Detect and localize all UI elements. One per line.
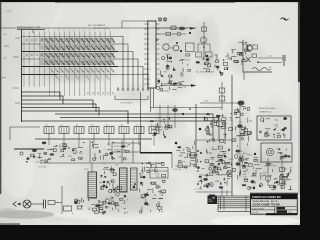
- wire left branch: [10, 127, 40, 140]
- stage mid right lower: [205, 146, 234, 170]
- transistor Q1: [163, 44, 169, 50]
- box divider: [186, 43, 195, 52]
- svg-text:T3: T3: [76, 125, 78, 127]
- dark component blob: [179, 27, 185, 31]
- wire amp top rail: [40, 162, 163, 164]
- svg-text:4: 4: [84, 30, 85, 32]
- dark blob top: [172, 108, 178, 112]
- handwritten squiggle: [252, 68, 271, 71]
- dark wire segment left: [14, 148, 44, 150]
- svg-text:6: 6: [48, 30, 49, 32]
- speaker icon: [266, 148, 273, 155]
- capacitor C40: [283, 55, 285, 66]
- wire secondary: [156, 32, 186, 36]
- wire amp verticals: [90, 140, 133, 163]
- wire long vertical x232: [231, 75, 233, 196]
- electrolytic cap dark dots: [103, 32, 261, 196]
- matrix row output staircase: [110, 37, 148, 88]
- svg-text:2: 2: [74, 30, 75, 32]
- svg-text:1: 1: [68, 30, 69, 32]
- svg-text:10: 10: [149, 69, 151, 71]
- scan speckles: [4, 4, 296, 212]
- wire label underline: [17, 29, 45, 31]
- wire y140 right: [196, 139, 232, 141]
- svg-text:c-4(): c-4(): [6, 9, 11, 13]
- wire long vertical x196: [195, 104, 197, 168]
- transducer LS1: [13, 200, 31, 208]
- svg-text:3: 3: [33, 30, 34, 32]
- edge labels: [268, 56, 272, 69]
- capacitor C21: [44, 200, 46, 209]
- transistor Q2: [201, 37, 207, 43]
- svg-text:8: 8: [149, 59, 150, 61]
- terminal circle: [20, 152, 23, 155]
- note box A: [112, 143, 140, 152]
- dark cap blob right column 2: [236, 162, 241, 165]
- output stage A: [197, 159, 232, 189]
- power parts inside: [252, 45, 259, 63]
- wire stubs below rail: [49, 139, 154, 147]
- power input parts: [229, 52, 243, 68]
- svg-text:AMERICAN CHIMES INC: AMERICAN CHIMES INC: [252, 195, 282, 199]
- svg-text:5: 5: [89, 30, 90, 32]
- preamp stage B: [176, 141, 197, 169]
- wire vertical amp input: [61, 186, 63, 214]
- svg-text:T4: T4: [91, 125, 93, 127]
- svg-text:DOOR CHIME 770-2W: DOOR CHIME 770-2W: [253, 203, 281, 207]
- svg-text:3: 3: [79, 30, 80, 32]
- svg-text:4: 4: [38, 30, 39, 32]
- left mid parts: [26, 149, 47, 162]
- svg-text:NS: NS: [208, 199, 212, 201]
- IC U1 pin stubs and numbers: [144, 24, 160, 84]
- wire to R45: [55, 202, 62, 204]
- title block header bar: [251, 194, 298, 199]
- amp lower parts: [72, 195, 128, 214]
- svg-text:KEY SW MATRIX: KEY SW MATRIX: [88, 24, 106, 27]
- connector small ticks: [88, 92, 113, 95]
- wire bottom rail: [196, 191, 232, 193]
- svg-text:T6: T6: [121, 125, 123, 127]
- amp discrete parts B: [139, 162, 165, 213]
- chart box upper: [257, 116, 291, 140]
- rail under trimmers: [35, 138, 152, 140]
- approval stamp: [208, 195, 218, 205]
- transformer T2: [120, 168, 128, 192]
- wire y107: [150, 107, 222, 109]
- matrix column wires: [24, 32, 110, 97]
- title block rule: [251, 206, 298, 208]
- wire from transducer: [31, 203, 43, 205]
- bus wire long C staircase: [60, 118, 219, 142]
- note box B: [150, 168, 168, 179]
- cap chain B: [265, 158, 272, 186]
- vertical wires quad: [160, 105, 175, 128]
- svg-text:9: 9: [149, 64, 150, 66]
- preamp stage A: [150, 117, 172, 135]
- diode matrix D1-D72: [25, 38, 115, 66]
- svg-text:12: 12: [149, 79, 151, 81]
- wire long vertical x140: [140, 92, 142, 152]
- resistor R45: [64, 206, 72, 211]
- wire U1 tail verticals: [151, 88, 154, 112]
- title block haze: [239, 190, 307, 218]
- wire corner drop: [121, 21, 123, 28]
- trimmer resistor row VR1-VR8: [44, 125, 159, 139]
- svg-text:+15v: +15v: [268, 56, 272, 58]
- bus wire long D staircase: [22, 121, 225, 144]
- bus wire long A: [22, 111, 128, 124]
- wire clock out: [0, 26, 196, 30]
- wire +15 to edge: [258, 57, 282, 59]
- chart box lower parts: [277, 148, 290, 160]
- title block lower rows: [251, 207, 298, 215]
- diode X mark: [246, 57, 251, 62]
- svg-text:8: 8: [58, 30, 59, 32]
- svg-text:2: 2: [28, 30, 29, 32]
- svg-text:11: 11: [149, 74, 151, 76]
- svg-text:T2: T2: [61, 125, 63, 127]
- matrix common bus wires: [22, 92, 99, 116]
- svg-text:9: 9: [109, 30, 110, 32]
- stage mid right: [204, 113, 236, 143]
- svg-text:DR. JM: DR. JM: [252, 212, 259, 214]
- top right aux parts: [228, 42, 248, 62]
- svg-text:1: 1: [23, 30, 24, 32]
- IC U5: [131, 168, 138, 190]
- svg-text:T7: T7: [136, 125, 138, 127]
- wire -15 to edge: [258, 62, 282, 64]
- connector J1 pin circles: [117, 87, 149, 90]
- electrolytic cap dark: [238, 101, 245, 106]
- bus left vertical wire: [21, 30, 23, 122]
- sheet mark 4D: [281, 18, 289, 20]
- bus wire long B staircase: [55, 114, 213, 138]
- IC U1 tone generator: [148, 21, 156, 88]
- wire osc vertical: [203, 22, 205, 60]
- dark wire segment mid: [140, 152, 172, 154]
- wire stub from label: [32, 30, 34, 33]
- matrix top pin labels: [23, 30, 110, 32]
- amp discrete parts A: [98, 163, 121, 209]
- regulator outline: [243, 40, 272, 72]
- crystal Y1: [159, 17, 167, 22]
- vertical chain x222: [219, 82, 225, 110]
- resistor R44: [48, 201, 55, 205]
- cap chain A: [279, 152, 286, 188]
- wire y103: [200, 102, 240, 104]
- transistor Q9: [246, 45, 252, 52]
- svg-text:-15v: -15v: [268, 67, 272, 69]
- connector bracket: [115, 96, 148, 100]
- svg-text:5: 5: [43, 30, 44, 32]
- right column parts: [232, 107, 253, 174]
- svg-text:7: 7: [53, 30, 54, 32]
- resistor R9: [202, 27, 207, 31]
- wires into revision table: [222, 188, 227, 196]
- title block bottom dark edge: [266, 213, 297, 215]
- wire drop below regulator: [243, 72, 245, 80]
- matrix row band shading: [40, 38, 114, 65]
- wire Q4 stub: [170, 47, 173, 49]
- transformer T1: [88, 163, 97, 198]
- tiny parts above note box: [173, 164, 191, 171]
- chart box upper parts: [259, 117, 287, 138]
- svg-text:9: 9: [63, 30, 64, 32]
- diode matrix second band: [50, 68, 114, 79]
- junction dot: [203, 46, 205, 48]
- note text AUDIO SIG: [259, 107, 275, 113]
- svg-text:T1: T1: [46, 125, 48, 127]
- title block frame: [251, 193, 298, 214]
- transistor Q4: [173, 45, 179, 51]
- matrix row wires: [22, 37, 118, 75]
- wire drop from dark segment: [171, 153, 173, 168]
- output stage C: [263, 167, 293, 190]
- divider stage parts: [196, 55, 220, 72]
- dark cap blob right column: [237, 124, 242, 128]
- left margin marks: [2, 34, 20, 103]
- mid parts row: [42, 142, 130, 161]
- svg-text:SCALE NONE: SCALE NONE: [252, 207, 265, 210]
- wire long vertical x240: [239, 104, 241, 175]
- U1 right lower parts: [156, 53, 190, 91]
- output stage B: [238, 156, 266, 190]
- parts at Q2 base: [196, 44, 213, 57]
- svg-text:T5: T5: [106, 125, 108, 127]
- chart box lower: [261, 143, 292, 162]
- wire +15 rail: [160, 84, 196, 87]
- revision table: [218, 196, 251, 212]
- wire top right corner: [122, 20, 150, 22]
- divider aux parts: [220, 56, 233, 76]
